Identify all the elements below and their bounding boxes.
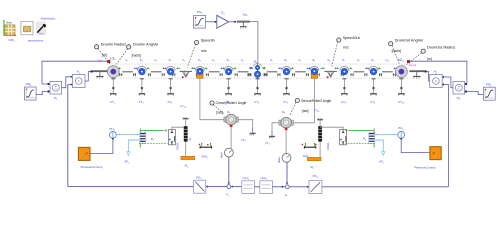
nip M_1 <box>248 60 267 79</box>
svg-text:FEMA,: FEMA, <box>326 142 330 150</box>
wire <box>230 127 232 149</box>
wire <box>427 72 430 82</box>
web span S_6 <box>263 67 283 76</box>
svg-text:[rad/s]: [rad/s] <box>392 49 401 53</box>
gain G_1 <box>217 11 229 29</box>
svg-text:Goo: Goo <box>39 32 44 36</box>
mass M_2 orange bar <box>307 157 321 170</box>
svg-text:parameters,: parameters, <box>28 39 44 43</box>
support FT_8 <box>341 78 348 104</box>
wire <box>320 127 343 129</box>
roller B_7 <box>340 66 349 75</box>
svg-text:[rad]: [rad] <box>302 109 309 113</box>
output SpeedOut <box>332 36 361 67</box>
green dashed <box>345 143 375 145</box>
green line <box>345 129 373 132</box>
svg-text:SpeedOut: SpeedOut <box>343 36 361 40</box>
spring damper right <box>318 126 322 157</box>
support FT_1 <box>110 78 117 104</box>
pneumatic line <box>116 133 139 135</box>
wire <box>206 185 233 187</box>
wire <box>231 186 242 188</box>
svg-text:m/s: m/s <box>201 49 207 53</box>
input DrumOut Radius <box>406 46 455 65</box>
svg-text:m/s: m/s <box>343 45 349 49</box>
svg-text:[m]: [m] <box>427 57 432 61</box>
tension sensor left <box>182 72 189 78</box>
convey roller sensor R_6 <box>279 110 293 130</box>
load roller B_6 orange <box>310 66 319 78</box>
wire <box>401 140 430 153</box>
pressure control PC_1 <box>78 147 103 169</box>
pressure source PU_1 <box>110 127 117 140</box>
wire phi feedback right <box>410 61 467 84</box>
wire riser right <box>444 85 449 187</box>
green line <box>141 129 167 132</box>
roller B_5 <box>282 66 291 75</box>
web path dotted <box>107 64 408 78</box>
wire riser left <box>68 85 71 187</box>
wire <box>238 120 253 128</box>
support FT_10 <box>398 78 405 104</box>
wire <box>90 140 113 154</box>
ground FT right <box>265 130 275 145</box>
output SensorRoller2 Angle <box>290 98 332 115</box>
RunModel icon <box>36 16 56 35</box>
roller B_1 <box>137 66 146 75</box>
roller B_2 <box>166 66 175 75</box>
svg-text:AbsA,: AbsA, <box>221 151 224 158</box>
support FT_5 <box>225 78 232 104</box>
svg-text:DrumOut AngVel: DrumOut AngVel <box>395 39 423 43</box>
svg-text:RunModel,: RunModel, <box>41 16 56 20</box>
wire <box>290 186 310 188</box>
wire <box>36 92 47 95</box>
spring damper left <box>184 126 192 156</box>
roller B_8 <box>369 66 378 75</box>
angle gauge AS_2 <box>278 153 291 163</box>
wire <box>200 78 224 119</box>
svg-text:SpeedIn: SpeedIn <box>201 39 215 43</box>
svg-text:AbsA,: AbsA, <box>278 156 281 163</box>
table icon INP_1 <box>3 20 16 43</box>
fixed FT_12 <box>180 104 188 126</box>
force sensor SGF_1 <box>199 142 212 159</box>
drive D_2 <box>453 82 467 101</box>
input DrumIn Radius <box>95 43 127 65</box>
filter PO_2 <box>194 175 208 193</box>
svg-text:FEMA,: FEMA, <box>176 142 180 150</box>
filter PO_3 <box>309 174 322 193</box>
web span S_8 <box>317 67 343 76</box>
wire <box>62 77 71 88</box>
drive D_1 <box>47 82 61 101</box>
svg-text:DrumIn Radius: DrumIn Radius <box>101 43 126 47</box>
wire <box>444 77 453 88</box>
actuator A_2 <box>430 70 444 88</box>
web span S_1 <box>118 67 138 76</box>
svg-text:DrumIn AngVel: DrumIn AngVel <box>133 42 158 46</box>
wire <box>293 78 314 123</box>
valve R_3 <box>140 128 155 147</box>
web span S_3 <box>173 67 199 76</box>
drum LO_1 <box>97 56 119 77</box>
ramp source PO_1 <box>194 10 206 28</box>
support FT_3 <box>167 78 174 104</box>
pressure control PC_2 <box>414 147 441 170</box>
ground FT left <box>241 127 256 142</box>
roller B_4 <box>224 66 233 75</box>
input SpeedIn <box>187 39 215 68</box>
speed actuator shaft left <box>90 70 107 78</box>
web span S_7 <box>291 67 311 76</box>
pneumatic line AP_2 <box>375 140 385 164</box>
web span S_2 <box>147 67 167 76</box>
svg-text:ConveyRoller1 Angle: ConveyRoller1 Angle <box>216 101 247 105</box>
pressure source PU_2 <box>398 126 405 140</box>
converter conv_1 <box>242 177 255 193</box>
mass M_1 orange bar <box>181 156 195 168</box>
tension sensor right <box>327 72 334 78</box>
wire <box>467 92 484 95</box>
support FT_6 <box>254 78 261 104</box>
sum junction F_2 <box>285 185 289 198</box>
input DrumIn AngVel <box>116 42 158 64</box>
signal wire <box>228 157 231 184</box>
wire <box>254 186 259 188</box>
wire <box>272 123 279 131</box>
fixed FT_13 <box>314 108 324 126</box>
svg-text:2φin: 2φin <box>97 59 103 63</box>
web span S_5 <box>234 67 254 76</box>
wire <box>285 130 287 154</box>
support FT_9 <box>370 78 377 104</box>
pneumatic line AP_1 <box>124 140 139 164</box>
valve R_4 <box>363 128 375 147</box>
pneumatic line <box>375 133 398 135</box>
output ConveyRoller1 Angle <box>210 101 247 115</box>
signal wire <box>286 162 289 184</box>
wire <box>172 127 186 129</box>
svg-text:DrumOut Radius: DrumOut Radius <box>427 46 455 50</box>
speed source So_1 <box>237 12 250 28</box>
wire phi feedback left <box>42 61 109 84</box>
sum junction F_1 <box>226 185 230 198</box>
svg-text:SensorRoller2 Angle: SensorRoller2 Angle <box>301 99 331 103</box>
svg-text:δ: δ <box>189 138 191 142</box>
convey roller sensor R_5 <box>224 110 238 127</box>
svg-text:lines: lines <box>7 20 13 24</box>
cylinder FEMA_1 <box>168 130 179 150</box>
input DrumOut AngVel <box>389 39 424 64</box>
drum AO_1 <box>396 58 417 78</box>
converter conv_2 <box>260 177 273 193</box>
wire bus <box>68 186 194 188</box>
web span S_9 <box>349 67 369 76</box>
row labels <box>125 58 389 63</box>
web span S_10 <box>378 67 398 76</box>
wire <box>250 22 258 63</box>
load roller B_3 orange <box>195 66 204 78</box>
wire <box>85 72 90 82</box>
support FT_2 <box>139 78 146 104</box>
svg-text:[rad/s]: [rad/s] <box>132 54 141 58</box>
ramp PR_2 <box>483 83 495 101</box>
wire <box>272 186 285 188</box>
cylinder FEMA_2 <box>326 130 346 150</box>
green dashed <box>139 143 168 145</box>
svg-text:[rad]: [rad] <box>216 110 223 114</box>
wire <box>206 21 217 23</box>
ramp PR_1 <box>25 82 37 100</box>
force sensor SGF_2 <box>302 142 317 158</box>
record parameters <box>21 22 44 43</box>
wire <box>229 21 237 23</box>
wire <box>322 186 449 188</box>
angle gauge AS_1 <box>221 148 234 158</box>
actuator A_1 <box>71 70 85 88</box>
speed actuator shaft right <box>409 70 426 78</box>
svg-text:2φout: 2φout <box>409 63 417 67</box>
support FT_7 <box>283 78 290 104</box>
web span S_4 <box>205 67 225 76</box>
